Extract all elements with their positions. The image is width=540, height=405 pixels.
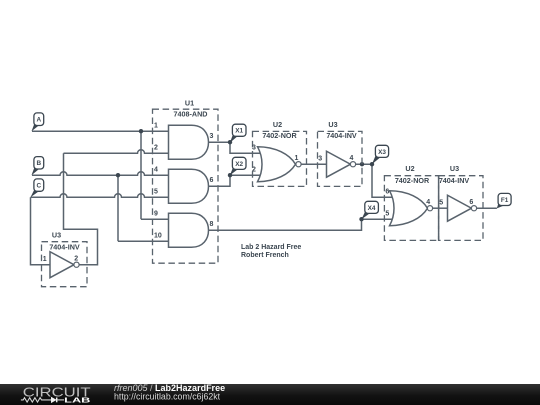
svg-text:7408-AND: 7408-AND xyxy=(174,110,208,119)
svg-text:LAB: LAB xyxy=(64,395,90,404)
wire X3 net: inverter output to flag and NOR2 pin 6 xyxy=(356,164,394,197)
svg-text:A: A xyxy=(36,117,41,124)
node X2 junction dot xyxy=(228,173,232,177)
svg-text:U2: U2 xyxy=(273,120,282,129)
node dot at inverter pin 4 xyxy=(360,162,364,166)
dashed box U3 7404-INV top xyxy=(318,131,363,186)
dashed box U1 7408-AND xyxy=(153,109,219,263)
NOR gate U2 bottom output bubble pin 4 xyxy=(427,206,432,211)
flag A xyxy=(32,113,44,131)
flag X4 xyxy=(362,201,379,219)
svg-text:1: 1 xyxy=(295,155,299,162)
logo resistor zigzag xyxy=(21,397,51,401)
svg-text:7402-NOR: 7402-NOR xyxy=(262,131,297,140)
dashed box U2 7402-NOR top xyxy=(253,131,307,186)
svg-text:5: 5 xyxy=(154,188,158,195)
svg-text:B: B xyxy=(36,160,41,167)
NOR gate U2 top body xyxy=(258,147,296,182)
svg-text:U3: U3 xyxy=(450,164,459,173)
flag X3 xyxy=(372,145,389,164)
svg-text:U1: U1 xyxy=(185,99,194,108)
dashed box U3 7404-INV bottom right xyxy=(439,176,483,241)
svg-text:U3: U3 xyxy=(328,120,337,129)
svg-text:2: 2 xyxy=(74,255,78,262)
svg-text:6: 6 xyxy=(469,199,473,206)
flag X1 xyxy=(230,124,246,143)
svg-text:10: 10 xyxy=(154,232,162,239)
svg-text:Lab 2 Hazard Free: Lab 2 Hazard Free xyxy=(241,244,301,251)
svg-text:4: 4 xyxy=(350,155,354,162)
svg-text:3: 3 xyxy=(318,155,322,162)
svg-text:X3: X3 xyxy=(378,149,386,156)
AND gate U1b pins 4,5,6 xyxy=(169,169,209,203)
flag B xyxy=(32,157,44,176)
AND gate U1a pins 1,2,3 xyxy=(169,125,209,159)
flag C xyxy=(31,179,44,197)
svg-text:6: 6 xyxy=(210,177,214,184)
svg-text:7404-INV: 7404-INV xyxy=(439,176,470,185)
svg-text:4: 4 xyxy=(426,199,430,206)
dashed box U2 7402-NOR bottom right xyxy=(384,176,438,241)
svg-text:7404-INV: 7404-INV xyxy=(326,131,357,140)
svg-text:9: 9 xyxy=(154,210,158,217)
node X4 junction dot xyxy=(359,217,363,221)
wire inverter U3 output to U1 pin 2 xyxy=(64,153,98,265)
wire net C down to inverter U3 input xyxy=(31,197,51,265)
svg-text:X1: X1 xyxy=(235,128,243,135)
wire X1 net: AND1 output to flag and NOR pin 3 xyxy=(209,142,262,153)
wire F1 net from inverter output xyxy=(477,207,497,209)
svg-text:U2: U2 xyxy=(405,164,414,173)
flag F1 xyxy=(497,193,511,208)
svg-text:F1: F1 xyxy=(501,197,509,204)
footer bar xyxy=(0,384,540,405)
svg-text:U3: U3 xyxy=(52,231,61,240)
svg-text:6: 6 xyxy=(385,188,389,195)
svg-text:8: 8 xyxy=(210,221,214,228)
inverter U3 bottom-left output bubble xyxy=(74,262,79,267)
svg-text:Robert French: Robert French xyxy=(241,252,289,259)
svg-text:1: 1 xyxy=(43,256,47,263)
svg-text:3: 3 xyxy=(252,144,256,151)
logo diode xyxy=(51,396,57,402)
svg-text:C: C xyxy=(36,183,41,190)
wire pin 2 horizontal with hop xyxy=(64,150,169,154)
node A junction dot xyxy=(139,129,143,133)
wire net B horizontal to U1 pin 4 with hops xyxy=(32,172,169,176)
wire net A horizontal to U1 pin 1 xyxy=(32,130,169,132)
inverter U3 bottom-right triangle pins 5,6 xyxy=(448,195,472,221)
wire vertical from node B down to pin 10 xyxy=(117,175,119,241)
wire X4 net: AND3 output to flag and NOR2 pin 5 xyxy=(209,219,394,230)
NOR gate U2 bottom body pins 6,5,4 xyxy=(390,191,428,226)
svg-text:http://circuitlab.com/c6j62kt: http://circuitlab.com/c6j62kt xyxy=(114,391,221,401)
NOR gate U2 top output bubble pin 1 xyxy=(296,162,301,167)
inverter U3 top triangle xyxy=(327,151,351,177)
AND gate U1c pins 9,10,8 xyxy=(169,213,209,247)
svg-text:7404-INV: 7404-INV xyxy=(49,243,80,252)
svg-text:4: 4 xyxy=(154,166,158,173)
dashed box U3 7404-INV bottom left xyxy=(42,242,88,287)
wire pin 9 horizontal xyxy=(141,218,169,220)
svg-text:2: 2 xyxy=(252,166,256,173)
solid shared edge between U2 and U3 boxes xyxy=(438,176,440,241)
node B junction dot xyxy=(116,173,120,177)
inverter U3 top output bubble pin 4 xyxy=(350,162,355,167)
svg-text:5: 5 xyxy=(385,210,389,217)
svg-text:7402-NOR: 7402-NOR xyxy=(395,176,430,185)
wire net C horizontal to U1 pin 5 with hops xyxy=(31,194,169,197)
wire vertical from node A down to pin 9 xyxy=(140,131,142,219)
inverter U3 bottom-right output bubble xyxy=(471,206,476,211)
svg-text:5: 5 xyxy=(439,199,443,206)
node X3 junction dot xyxy=(370,162,374,166)
svg-text:X2: X2 xyxy=(235,161,243,168)
wire NOR U2 output to inverter U3 input xyxy=(301,163,327,165)
wire X2 net: AND2 output to flag and NOR pin 2 xyxy=(209,175,262,186)
node X1 junction dot xyxy=(228,140,232,144)
svg-text:3: 3 xyxy=(210,133,214,140)
wire NOR2 output to inverter U3b input xyxy=(433,207,448,209)
wire pin 10 horizontal xyxy=(118,240,169,242)
inverter U3 bottom-left triangle pins 1,2 xyxy=(50,252,74,278)
svg-text:X4: X4 xyxy=(368,205,376,212)
svg-text:1: 1 xyxy=(154,122,158,129)
svg-text:2: 2 xyxy=(154,144,158,151)
flag X2 xyxy=(230,157,246,175)
